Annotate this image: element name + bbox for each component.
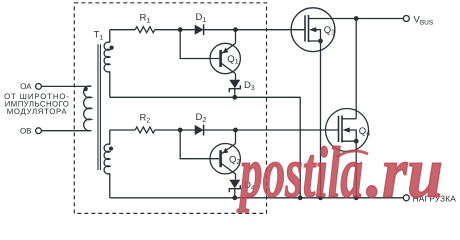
wire Q1 collector down bbox=[235, 74, 237, 80]
node R1-D1 junction bbox=[178, 27, 183, 32]
MOSFET Q4 bbox=[326, 109, 369, 152]
watermark postila.ru bbox=[236, 131, 443, 212]
wire Q4 source down bbox=[355, 141, 357, 198]
secondary 2 winding bbox=[104, 144, 110, 174]
transformer core bbox=[98, 44, 100, 170]
svg-text:ОА: ОА bbox=[20, 82, 32, 91]
node VBUS junction bbox=[354, 16, 359, 21]
secondary 2 bottom stub bbox=[109, 174, 111, 198]
secondary 1 winding bbox=[104, 42, 110, 72]
wire D1 to Q3 gate bbox=[204, 29, 305, 31]
node D1 cathode junction bbox=[233, 27, 238, 32]
node D2 cathode junction bbox=[233, 128, 238, 133]
dashed enclosure box bbox=[74, 3, 266, 214]
resistor R2 bbox=[135, 127, 155, 133]
zener diode D4 bbox=[229, 180, 240, 188]
primary phase dot bbox=[84, 87, 88, 91]
node upper return rail junction bbox=[298, 195, 303, 200]
wire Q1 emitter up bbox=[235, 30, 237, 44]
terminal load bbox=[403, 195, 409, 201]
wire R1 to D1 bbox=[155, 29, 195, 31]
svg-text:.ru: .ru bbox=[366, 131, 443, 212]
svg-text:МОДУЛЯТОРА: МОДУЛЯТОРА bbox=[7, 107, 68, 116]
wire upper return rail bbox=[110, 97, 300, 198]
secondary 2 phase dot bbox=[109, 147, 113, 151]
secondary 2 top stub bbox=[109, 130, 111, 145]
wire sec2 to R2 bbox=[110, 129, 135, 131]
diode D1 bbox=[195, 25, 204, 35]
terminal VBUS bbox=[403, 16, 409, 22]
wire D3 to rail bbox=[234, 89, 236, 98]
wire Q2 collector down bbox=[235, 174, 237, 180]
node R2-D2 junction bbox=[178, 128, 183, 133]
watermark swash arc bbox=[337, 151, 368, 157]
terminal OB bbox=[36, 128, 42, 134]
secondary 1 bottom stub bbox=[109, 72, 111, 98]
zener diode D3 bbox=[229, 80, 240, 88]
secondary 1 phase dot bbox=[110, 46, 114, 50]
wire sec1 to R1 bbox=[110, 29, 135, 31]
wire bottom rail bbox=[110, 197, 404, 199]
transistor Q1 bbox=[210, 43, 240, 73]
wire R2 to D2 bbox=[155, 129, 195, 131]
transistor Q2 bbox=[210, 144, 240, 174]
wire Q4 drain up to VBUS bbox=[355, 19, 357, 119]
node D3 rail junction bbox=[232, 95, 237, 100]
wire Q1 base tap bbox=[180, 30, 219, 59]
wire Q3 source down bbox=[320, 41, 322, 198]
node Q4 source rail junction bbox=[354, 195, 359, 200]
wire Q2 base tap bbox=[180, 130, 219, 159]
wire Q2 emitter up bbox=[235, 130, 237, 144]
wire OA to primary bbox=[41, 85, 91, 87]
transformer T1 primary winding bbox=[84, 86, 92, 131]
wire OB to primary bbox=[41, 130, 91, 132]
wire D2 to Q4 gate bbox=[204, 129, 339, 131]
resistor R1 bbox=[135, 27, 155, 33]
wire D4 to rail bbox=[234, 189, 236, 198]
node Q3 source rail junction bbox=[318, 195, 323, 200]
MOSFET Q3 bbox=[291, 8, 403, 52]
secondary 1 top stub bbox=[109, 30, 111, 43]
node D4 rail junction bbox=[232, 195, 237, 200]
diode D2 bbox=[195, 125, 204, 135]
svg-text:ОВ: ОВ bbox=[20, 127, 32, 136]
terminal OA bbox=[36, 84, 42, 90]
svg-text:postila: postila bbox=[236, 131, 363, 212]
